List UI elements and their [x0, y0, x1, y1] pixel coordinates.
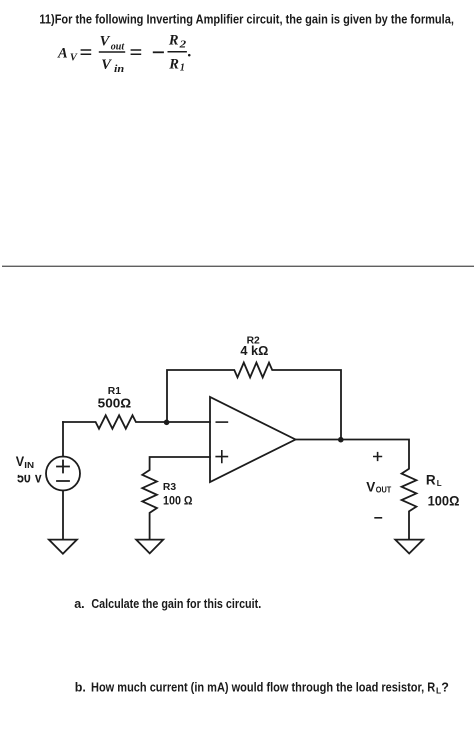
svg-text:b.: b. [75, 680, 86, 694]
svg-text:11)For the following Inverting: 11)For the following Inverting Amplifier… [39, 13, 454, 27]
svg-text:in: in [114, 64, 125, 75]
svg-text:V: V [70, 52, 78, 63]
svg-text:R3: R3 [163, 481, 176, 493]
svg-text:.: . [187, 43, 191, 60]
svg-text:OUT: OUT [376, 486, 392, 495]
svg-text:100 Ω: 100 Ω [163, 494, 193, 508]
svg-text:R: R [426, 473, 436, 488]
svg-text:L: L [437, 479, 442, 488]
svg-text:V: V [100, 34, 111, 50]
svg-text:V: V [101, 57, 112, 73]
svg-text:A: A [57, 45, 68, 61]
svg-text:50 V: 50 V [17, 471, 43, 487]
svg-text:IN: IN [24, 461, 34, 470]
svg-text:How much current (in mA) would: How much current (in mA) would flow thro… [91, 680, 435, 694]
svg-text:?: ? [441, 680, 449, 694]
svg-text:R: R [168, 32, 179, 48]
svg-text:R: R [168, 57, 179, 73]
svg-text:100Ω: 100Ω [428, 493, 460, 508]
svg-text:V: V [16, 454, 24, 469]
svg-text:4 kΩ: 4 kΩ [240, 344, 268, 358]
svg-text:V: V [366, 479, 375, 494]
svg-text:500Ω: 500Ω [98, 396, 132, 410]
svg-text:Calculate the gain for this ci: Calculate the gain for this circuit. [91, 597, 261, 611]
svg-text:1: 1 [180, 63, 185, 74]
svg-text:out: out [111, 41, 126, 52]
svg-text:a.: a. [74, 597, 84, 611]
svg-text:2: 2 [178, 40, 187, 51]
svg-text:R1: R1 [108, 385, 121, 397]
